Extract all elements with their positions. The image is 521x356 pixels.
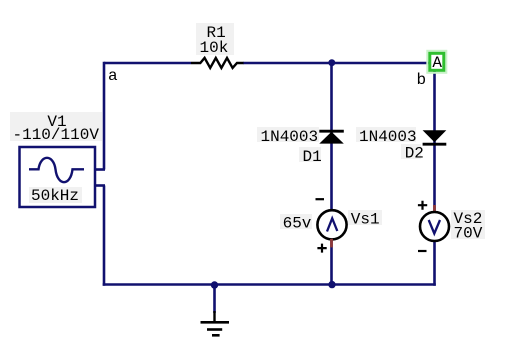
wire bottom rail xyxy=(103,283,436,286)
resistor R1 xyxy=(191,58,244,68)
Vs1 internal arrow symbol xyxy=(327,218,337,231)
resistor R1 value label 10k xyxy=(200,39,229,57)
source Vs2 circle xyxy=(420,212,449,241)
svg-text:D1: D1 xyxy=(303,148,322,166)
label background V1 -110/110V xyxy=(10,112,102,141)
D2 value label 1N4003 xyxy=(359,128,417,146)
label background R1/10k xyxy=(196,23,234,55)
label background 1N4003 D1 xyxy=(257,127,321,162)
Vs2 minus sign xyxy=(418,250,427,252)
junction dot at bottom of middle branch xyxy=(328,281,335,288)
Vs1 minus sign xyxy=(316,198,325,200)
svg-text:10k: 10k xyxy=(200,39,229,57)
V1 value label -110/110V xyxy=(13,126,100,144)
Vs2 value label 70V xyxy=(454,225,483,243)
Vs1 red terminal segment xyxy=(330,239,333,248)
Vs1 value label 65v xyxy=(283,215,312,233)
label background 50kHz xyxy=(29,187,82,203)
label background Vs1 xyxy=(348,210,382,225)
svg-text:a: a xyxy=(108,67,118,85)
junction dot at top of middle branch xyxy=(328,59,335,66)
wire stub V1 bottom terminal xyxy=(94,184,105,187)
voltage source V1 box xyxy=(20,147,96,207)
wire right branch (probe box down through D2 and Vs2 to bottom rail) xyxy=(433,71,436,286)
V1 frequency label 50kHz xyxy=(31,187,79,205)
resistor R1 reference label xyxy=(207,24,226,42)
svg-text:Vs1: Vs1 xyxy=(351,210,380,228)
V1 reference label xyxy=(47,113,66,131)
svg-text:1N4003: 1N4003 xyxy=(261,128,319,146)
diode D2 (triangle pointing down, cathode bar below) xyxy=(423,130,447,144)
source Vs1 circle xyxy=(317,210,346,239)
wire top-left from node a corner to resistor xyxy=(104,62,191,65)
Vs2 reference label xyxy=(454,210,483,228)
wire stub V1 top terminal xyxy=(94,168,105,171)
svg-text:-110/110V: -110/110V xyxy=(13,126,100,144)
Vs1 plus sign xyxy=(317,244,326,253)
ground symbol xyxy=(201,311,230,335)
wire left branch upper (node a down to source V1 top stub) xyxy=(103,62,106,170)
svg-text:50kHz: 50kHz xyxy=(31,187,79,205)
V1 sine waveform xyxy=(29,158,84,182)
node a label xyxy=(108,67,118,85)
ground stem (navy upper part) xyxy=(213,285,216,313)
svg-text:1N4003: 1N4003 xyxy=(359,128,417,146)
D1 reference label xyxy=(303,148,322,166)
svg-text:65v: 65v xyxy=(283,215,312,233)
Vs1 reference label xyxy=(351,210,380,228)
label background 65v xyxy=(280,214,312,229)
Vs2 plus sign xyxy=(418,201,427,210)
diode D1 (cathode bar up, triangle pointing up) xyxy=(319,131,344,143)
label background 1N4003 D2 xyxy=(356,127,421,159)
svg-text:D2: D2 xyxy=(405,145,424,163)
svg-text:b: b xyxy=(417,71,427,89)
junction dot at ground tap xyxy=(211,281,218,288)
Vs2 red terminal segment xyxy=(433,205,436,213)
D2 reference label xyxy=(405,145,424,163)
svg-text:70V: 70V xyxy=(454,225,483,243)
wire middle branch (junction at top through D1 and Vs1 to bottom rail) xyxy=(330,63,333,285)
node b label xyxy=(417,71,427,89)
label background Vs2 70V xyxy=(451,210,485,239)
svg-text:A: A xyxy=(432,54,442,72)
probe connector A (green box) xyxy=(427,51,446,73)
Vs2 internal V symbol xyxy=(429,220,440,234)
wire left branch lower (source V1 bottom stub down to bottom rail) xyxy=(103,186,106,286)
D1 value label 1N4003 xyxy=(261,128,319,146)
wire top from resistor to junction and green probe box xyxy=(243,62,429,65)
